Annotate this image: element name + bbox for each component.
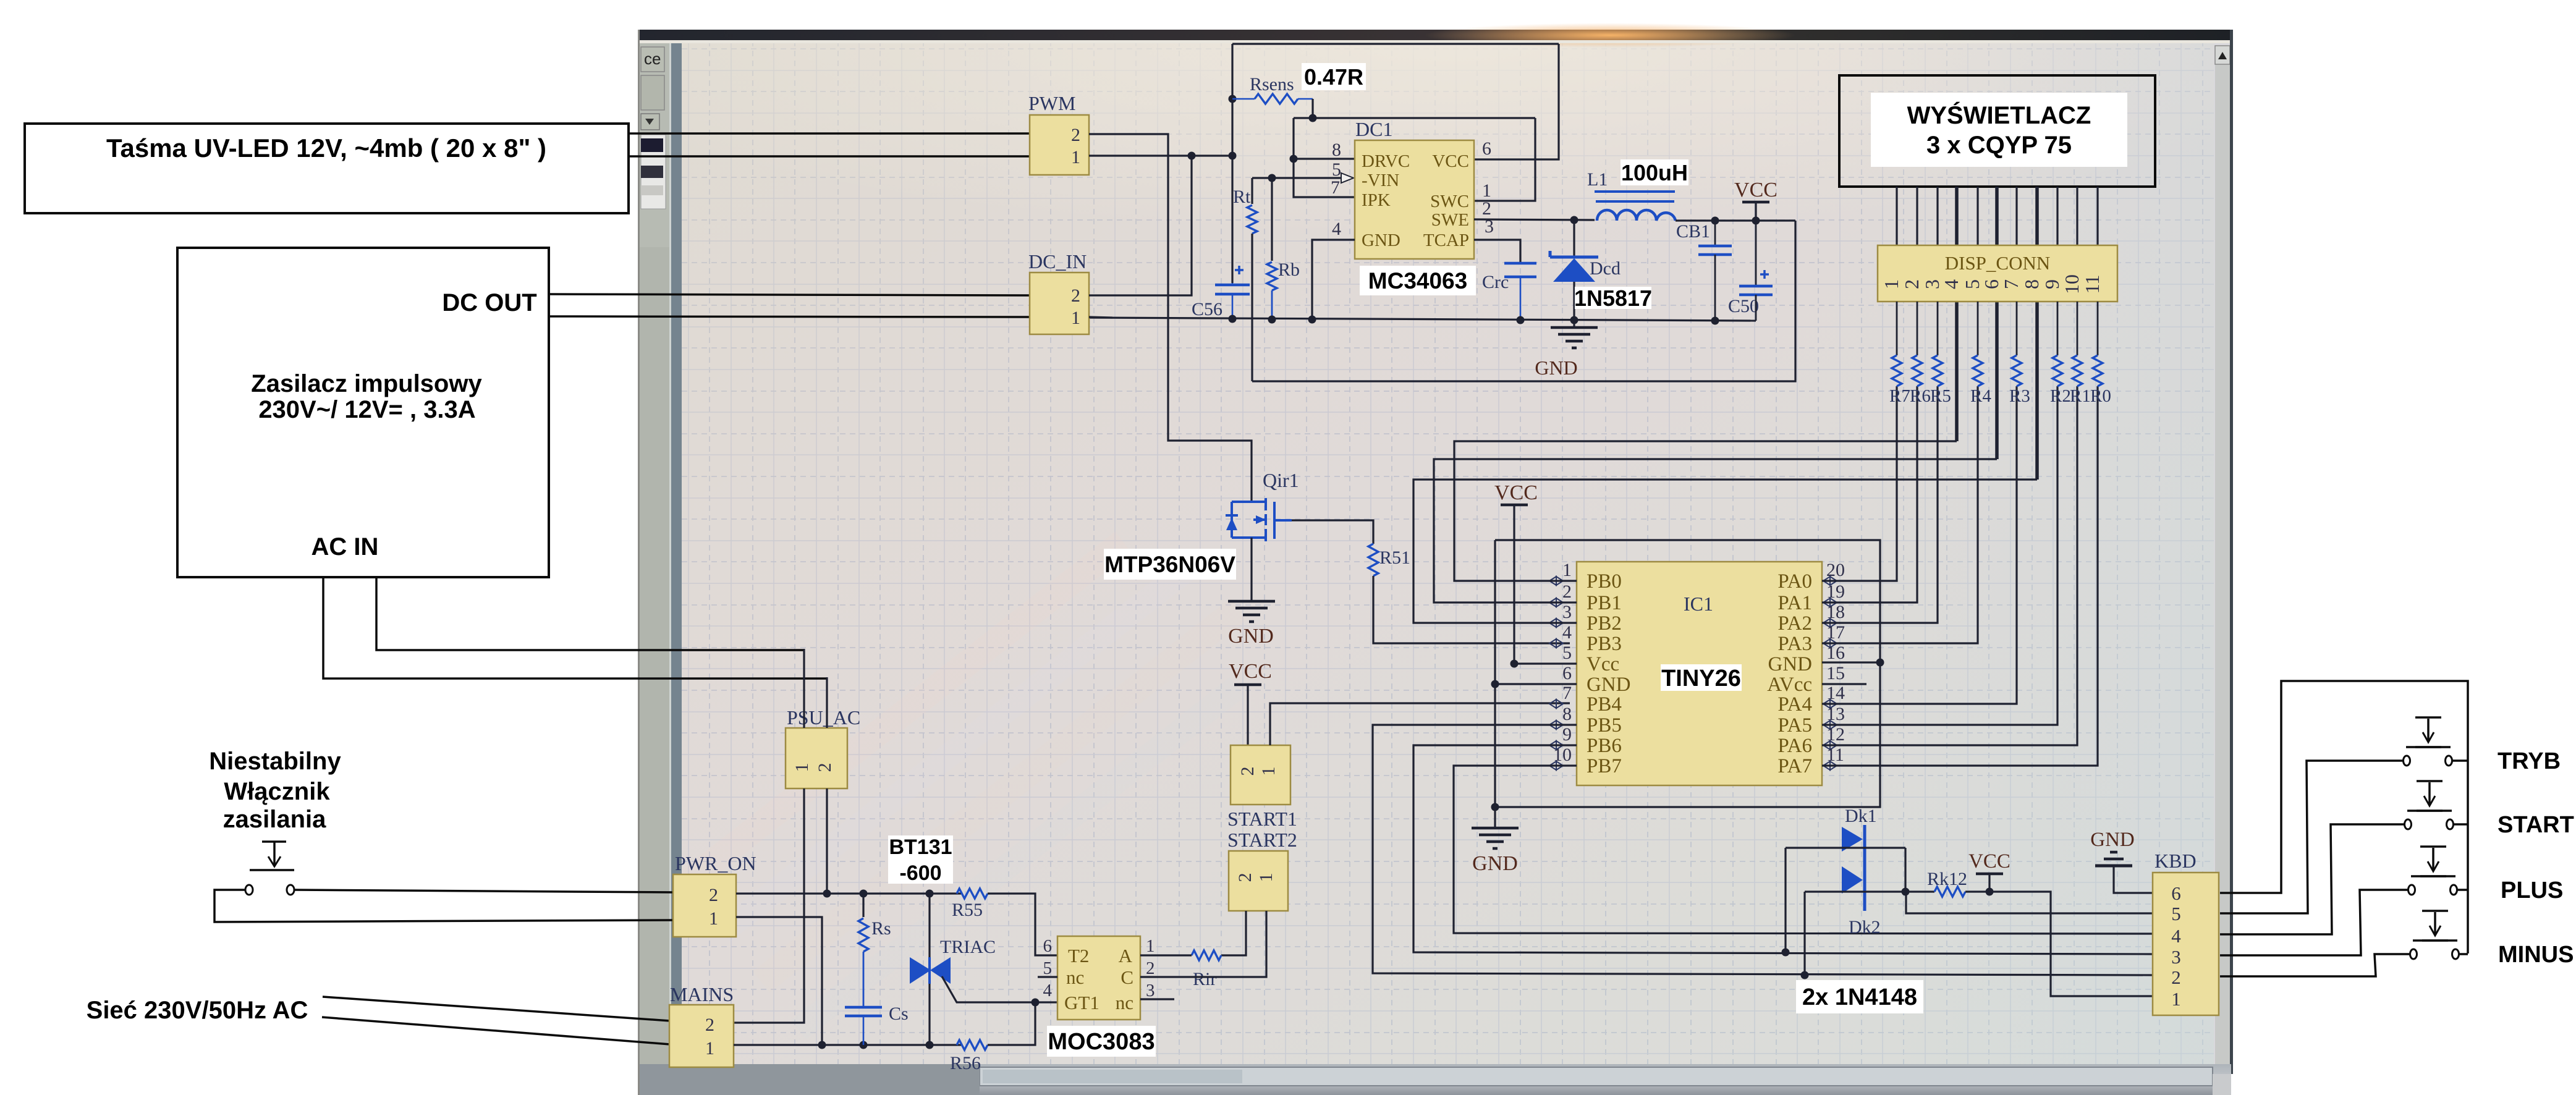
label MC34063 [1360, 266, 1476, 295]
label 1N5817 [1575, 287, 1651, 309]
wire: KBD pin6 to buttons common [2220, 681, 2468, 953]
svg-text:SWC: SWC [1430, 192, 1469, 211]
node: triac bottom [926, 1041, 934, 1049]
wire: GND stem [1494, 540, 1496, 828]
svg-text:PB1: PB1 [1587, 592, 1622, 614]
svg-text:2: 2 [1071, 125, 1080, 145]
svg-text:T2: T2 [1068, 945, 1089, 966]
wire: AC IN to PSU_AC pin1 [376, 577, 804, 650]
node: Rb top tee [1268, 174, 1276, 182]
svg-text:PWR_ON: PWR_ON [675, 852, 756, 874]
wire: MOC pin2 to START2 pin1 [1140, 911, 1266, 977]
wire: DC OUT to DC_IN pin1 [549, 316, 1030, 317]
ic IC1 TINY26 [1577, 562, 1822, 785]
svg-text:Niestabilny: Niestabilny [209, 748, 341, 775]
wire: PSU_AC pin1 riser [803, 649, 805, 728]
wire: switch to PWR_ON pin1 [214, 890, 674, 922]
wire: VCC to START1 pin2 [1247, 685, 1248, 745]
svg-text:2: 2 [705, 1015, 714, 1035]
svg-text:R1: R1 [2070, 386, 2091, 406]
wire: START2 pin2 to Rir [1221, 911, 1246, 955]
annotation box: WYSWIETLACZ display [1839, 75, 2155, 187]
annotation box: Zasilacz impulsowy (PSU) [177, 248, 549, 577]
wire: +12V top loop node A to DC1 pin6 [1232, 43, 1559, 44]
node: y191 junction [1309, 114, 1317, 122]
push button TRYB [2415, 746, 2441, 748]
label BT131-600 [888, 835, 953, 884]
wire: PSU_AC pin1 down to MAINS pin2 [734, 788, 804, 1023]
svg-text:5: 5 [1562, 643, 1572, 663]
optocoupler MOC3083 [1057, 936, 1140, 1020]
svg-text:7: 7 [2000, 279, 2022, 289]
wire: PWR_ON pin2 row (triac top rail) [736, 892, 961, 894]
svg-text:R55: R55 [952, 900, 983, 920]
svg-text:Cs: Cs [889, 1004, 909, 1024]
wire: DC1 pin2 SWE row [1474, 219, 1595, 220]
svg-text:3: 3 [2171, 946, 2181, 968]
wire: TRYB to KBD pin5 [2220, 761, 2403, 913]
svg-text:DRVC: DRVC [1362, 151, 1410, 171]
svg-text:TRIAC: TRIAC [940, 937, 996, 957]
svg-text:2: 2 [1562, 581, 1572, 602]
wire: PA1 to R6 [1822, 386, 1917, 602]
svg-text:R5: R5 [1930, 386, 1951, 406]
wire: PA3 to R4 [1822, 386, 1978, 643]
wire: DRVC/IPK vertical [1294, 118, 1355, 197]
node: gnd pin [1491, 680, 1499, 688]
wire: triac gate [942, 976, 1035, 1002]
svg-text:PA7: PA7 [1777, 755, 1812, 777]
node: DC_IN pin2 tee [1188, 152, 1196, 160]
wire: PLUS common stub [2457, 889, 2468, 891]
node: PWM pin1 tee [1229, 152, 1237, 160]
wire: Rk12 to VCC and KBD pin1 [1965, 892, 2153, 996]
svg-text:MC34063: MC34063 [1368, 268, 1467, 294]
push button PLUS [2420, 875, 2446, 877]
svg-text:IPK: IPK [1362, 190, 1391, 210]
wire: Rsens right to IPK/DRVC/SWC node [1311, 99, 1313, 118]
svg-text:15: 15 [1826, 663, 1845, 683]
svg-text:nc: nc [1116, 992, 1133, 1013]
svg-text:GND: GND [1472, 852, 1518, 875]
svg-text:16: 16 [1826, 643, 1845, 663]
svg-text:1: 1 [1562, 560, 1572, 580]
svg-text:R7: R7 [1889, 386, 1910, 406]
svg-text:R0: R0 [2090, 386, 2111, 406]
svg-text:Dcd: Dcd [1590, 258, 1621, 279]
connector START1 [1231, 745, 1290, 805]
svg-text:8: 8 [2020, 279, 2043, 289]
svg-text:2: 2 [1237, 767, 1258, 776]
push button START [2417, 810, 2443, 812]
wire: KBD pin5 row [1906, 892, 2153, 913]
wire: DC1 pin5 -VIN row [1252, 177, 1346, 179]
wire: PB7 to KBD pin4 row [1454, 766, 2153, 934]
svg-text:START2: START2 [1227, 829, 1297, 851]
svg-text:PA5: PA5 [1777, 714, 1812, 737]
svg-text:3: 3 [1562, 602, 1572, 622]
svg-text:7: 7 [1562, 683, 1572, 703]
svg-text:C: C [1121, 966, 1133, 988]
svg-text:TINY26: TINY26 [1661, 666, 1741, 691]
svg-text:PB5: PB5 [1587, 714, 1622, 737]
wire: Dk cathodes to Rk12 node [1786, 847, 1905, 848]
svg-text:DC1: DC1 [1355, 118, 1392, 140]
label WYSWIETLACZ 3 x CQYP 75 [1871, 93, 2127, 167]
wire: Qir1 source to ground [1250, 538, 1252, 601]
wire: to DC1 pin1 SWC [1474, 118, 1535, 201]
wire: DC OUT to DC_IN pin2 [549, 294, 1030, 295]
wire: PSU_AC pin2 down to switch row [826, 788, 828, 894]
svg-text:2: 2 [1071, 285, 1080, 306]
monitor photo background [640, 30, 2231, 1095]
svg-text:1: 1 [1071, 308, 1080, 328]
svg-text:R2: R2 [2050, 386, 2071, 406]
svg-text:R6: R6 [1910, 386, 1931, 406]
wire: AVcc stub [1822, 683, 1866, 685]
svg-text:3 x CQYP 75: 3 x CQYP 75 [1926, 132, 2072, 159]
svg-text:9: 9 [2041, 279, 2063, 289]
svg-text:2: 2 [2171, 966, 2181, 988]
svg-text:4: 4 [1332, 219, 1341, 239]
svg-text:Sieć 230V/50Hz AC: Sieć 230V/50Hz AC [87, 997, 308, 1024]
svg-text:GND: GND [1535, 357, 1577, 379]
wire: DISP pin6 to PB1 [1995, 302, 1999, 459]
svg-text:4: 4 [1043, 981, 1053, 1000]
svg-text:IC1: IC1 [1684, 593, 1713, 615]
svg-text:100uH: 100uH [1621, 160, 1688, 185]
node: SWE diode tap [1570, 216, 1578, 224]
right scrollbar [2215, 46, 2230, 1064]
svg-text:DISP_CONN: DISP_CONN [1945, 252, 2051, 274]
svg-text:2: 2 [815, 763, 835, 772]
ground under IC1 [1472, 827, 1519, 830]
wire: DC1 pin4 GND drop [1312, 240, 1355, 319]
svg-text:KBD: KBD [2154, 850, 2197, 872]
wire: MOC pin5 stub [1038, 976, 1057, 978]
svg-text:5: 5 [2171, 903, 2181, 924]
svg-text:VCC: VCC [1229, 660, 1272, 683]
svg-text:5: 5 [1043, 958, 1053, 978]
svg-text:ce: ce [644, 49, 661, 68]
wire: DC1 pin6 VCC [1474, 44, 1559, 159]
wire: ground rail [1089, 318, 1756, 321]
node: pin4 gnd [1308, 316, 1316, 324]
svg-text:6: 6 [1562, 663, 1572, 683]
svg-text:zasilania: zasilania [223, 806, 327, 833]
svg-text:START1: START1 [1227, 808, 1297, 830]
label MTP36N06V [1104, 549, 1236, 580]
svg-text:PB7: PB7 [1587, 755, 1622, 777]
svg-text:R56: R56 [950, 1053, 981, 1073]
svg-text:PB6: PB6 [1587, 735, 1622, 757]
node: gate/moc pin4 [1032, 999, 1040, 1007]
label MOC3083 [1047, 1026, 1156, 1057]
wire: PA0 to R7 [1822, 386, 1897, 581]
svg-text:1: 1 [2171, 988, 2181, 1010]
node: Rs top [860, 890, 868, 898]
wire: switch to PWR_ON pin2 [294, 890, 674, 892]
wires: display to DISP_CONN [1896, 187, 1897, 245]
wire: DC_IN pin2 riser [1089, 156, 1192, 295]
wire: L1 out to VCC node [1676, 219, 1795, 221]
svg-text:MOC3083: MOC3083 [1048, 1029, 1155, 1055]
wire: PA4 to R3 [1822, 386, 2017, 704]
wire: PSU_AC pin2 riser [826, 677, 828, 728]
svg-text:R4: R4 [1970, 386, 1991, 406]
svg-text:MTP36N06V: MTP36N06V [1104, 552, 1235, 577]
svg-text:PA2: PA2 [1777, 612, 1812, 635]
svg-text:SWE: SWE [1431, 210, 1469, 230]
svg-text:2: 2 [1900, 279, 1923, 289]
svg-text:WYŚWIETLACZ: WYŚWIETLACZ [1907, 101, 2091, 129]
svg-text:GND: GND [1587, 674, 1631, 696]
wire: START1 pin1 to PB4 [1270, 703, 1570, 745]
svg-text:PLUS: PLUS [2501, 877, 2563, 903]
wire: gnd top loop [1495, 540, 1880, 807]
node: psu/switch junction [823, 890, 831, 898]
svg-text:4: 4 [1562, 622, 1572, 643]
resistors R7..R0 [1896, 302, 1898, 355]
svg-text:Zasilacz impulsowy: Zasilacz impulsowy [251, 370, 482, 397]
svg-text:GND: GND [2090, 829, 2135, 851]
svg-text:4: 4 [1940, 279, 1962, 289]
svg-text:-600: -600 [899, 861, 941, 885]
svg-text:C56: C56 [1192, 299, 1222, 319]
wire: GND pin row [1495, 683, 1577, 685]
value 0.47R [1302, 63, 1366, 90]
wire: TRYB common stub [2452, 759, 2468, 762]
wire: tape to PWM pin2 [629, 132, 1030, 135]
node: kbd2/dk tee [1801, 971, 1809, 979]
svg-text:nc: nc [1066, 966, 1084, 988]
wire: DISP pin4 to PB0 [1955, 302, 1959, 441]
svg-text:9: 9 [1562, 724, 1572, 745]
svg-text:PA3: PA3 [1777, 633, 1812, 655]
svg-text:AC IN: AC IN [311, 533, 379, 560]
push button MINUS [2422, 939, 2448, 942]
wire: pin16 GND row [1822, 661, 1880, 663]
wire: DISP pin8 to PB2 [2035, 302, 2039, 480]
svg-text:8: 8 [1562, 704, 1572, 724]
svg-text:1: 1 [705, 1038, 714, 1059]
svg-text:1: 1 [1880, 279, 1902, 289]
label TINY26 [1661, 664, 1742, 691]
monitor top bezel [640, 30, 2231, 40]
svg-text:1: 1 [792, 763, 812, 772]
wire: VCC to Vcc pin [1514, 505, 1577, 664]
wire: +12V vertical rail x=1994 (C56 top) [1231, 44, 1233, 283]
svg-text:C50: C50 [1728, 296, 1759, 316]
wire: PA6 to R1 [1822, 386, 2077, 745]
wire: mains L to MAINS pin2 [323, 997, 670, 1021]
wire: PA7 to R0 [1822, 386, 2098, 766]
svg-text:VCC: VCC [1432, 151, 1469, 171]
svg-text:CB1: CB1 [1676, 221, 1710, 242]
node: gnd loop tee [1491, 803, 1499, 811]
svg-text:DC OUT: DC OUT [442, 289, 536, 316]
node: Cs bottom [860, 1041, 868, 1049]
svg-text:Rs: Rs [871, 918, 891, 939]
node: C56 bottom [1229, 315, 1237, 323]
power switch symbol [262, 840, 286, 843]
node: triac top [926, 890, 934, 898]
wire: PWR_ON pin1 to MAINS pin1 row [736, 917, 822, 1045]
wire: PB5 to KBD pin2 row [1373, 725, 2153, 975]
wire: MOC pin3 stub [1140, 998, 1174, 1000]
svg-text:Taśma UV-LED 12V, ~4mb ( 20 x: Taśma UV-LED 12V, ~4mb ( 20 x 8" ) [106, 133, 546, 163]
wire: MOC pin1 to Rir [1140, 954, 1192, 956]
node: pin16 gnd tee [1876, 659, 1884, 667]
svg-text:2: 2 [709, 885, 718, 905]
svg-text:START: START [2498, 812, 2574, 838]
wire: START to KBD pin4 [2220, 824, 2404, 934]
wire: DC_IN pin1 to gnd rail [1089, 317, 1112, 318]
svg-text:R3: R3 [2009, 386, 2030, 406]
svg-text:1: 1 [1071, 147, 1080, 167]
svg-text:2x 1N4148: 2x 1N4148 [1802, 984, 1917, 1010]
svg-text:PA6: PA6 [1777, 735, 1812, 757]
svg-text:MINUS: MINUS [2498, 942, 2574, 968]
svg-text:PWM: PWM [1028, 92, 1075, 114]
annotation box: Tasma UV-LED [25, 124, 629, 213]
node: VCC/C50 top [1752, 217, 1760, 225]
wire: PLUS to KBD pin3 [2220, 890, 2408, 955]
node: pin8 tee [1290, 155, 1298, 163]
svg-text:2: 2 [1146, 958, 1155, 978]
wire: VCC feedback loop to Rt [1252, 221, 1795, 381]
wire: mains N to MAINS pin1 [322, 1017, 670, 1044]
svg-text:GND: GND [1228, 625, 1274, 648]
ground under Qir1 [1228, 600, 1275, 603]
svg-text:BT131: BT131 [889, 835, 952, 859]
svg-text:PA1: PA1 [1777, 592, 1812, 614]
wire: Rk12 row [1805, 890, 1934, 892]
svg-text:-VIN: -VIN [1362, 171, 1399, 190]
grid [688, 41, 689, 1064]
svg-text:6: 6 [1482, 138, 1491, 159]
node: VCC tap [1986, 888, 1994, 896]
svg-text:PB4: PB4 [1587, 693, 1622, 716]
node: rk12 left [1902, 888, 1910, 896]
node: Vcc pin [1510, 660, 1519, 668]
svg-text:Vcc: Vcc [1587, 653, 1619, 675]
wire: PB6 to KBD pin3 row [1413, 745, 2153, 954]
wire: tape to PWM pin1 [629, 155, 1030, 158]
label 2x 1N4148 [1796, 980, 1923, 1013]
svg-text:Rb: Rb [1278, 260, 1300, 280]
node: CB1 bottom [1711, 317, 1719, 325]
svg-text:1: 1 [1258, 767, 1279, 776]
svg-text:GND: GND [1362, 230, 1400, 250]
svg-text:PB2: PB2 [1587, 612, 1622, 635]
node: Rb bottom [1268, 316, 1276, 324]
wire: R55 to MOC pin6 [988, 894, 1057, 955]
svg-text:MAINS: MAINS [670, 983, 734, 1005]
svg-text:PSU_AC: PSU_AC [787, 706, 860, 729]
svg-text:GND: GND [1768, 653, 1813, 675]
node: kbd3/dk tee [1782, 949, 1790, 957]
svg-text:PB0: PB0 [1587, 570, 1622, 593]
svg-text:1: 1 [1146, 936, 1155, 956]
svg-text:VCC: VCC [1734, 179, 1777, 201]
wire: MINUS to KBD pin2 [2220, 954, 2410, 976]
wire: AC IN to PSU_AC pin2 [323, 577, 827, 679]
wire: PA2 to R5 [1822, 386, 1938, 623]
left toolbar strip [640, 43, 682, 1095]
svg-text:3: 3 [1146, 981, 1155, 1000]
svg-text:6: 6 [1043, 936, 1053, 956]
node: switch return [818, 1041, 826, 1049]
svg-text:6: 6 [2171, 882, 2181, 904]
svg-text:7: 7 [1331, 177, 1340, 198]
svg-text:VCC: VCC [1968, 850, 2010, 873]
svg-text:Dk1: Dk1 [1845, 806, 1877, 826]
svg-text:TCAP: TCAP [1423, 230, 1469, 250]
svg-text:8: 8 [1332, 140, 1341, 160]
svg-text:Crc: Crc [1482, 272, 1509, 292]
svg-text:AVcc: AVcc [1767, 674, 1812, 696]
svg-text:DC_IN: DC_IN [1028, 250, 1087, 273]
svg-text:PA0: PA0 [1777, 570, 1812, 593]
svg-text:10: 10 [2061, 274, 2083, 294]
wire: MAINS pin1 row (triac bottom rail) [734, 1044, 961, 1046]
wire: DC1 pin3 TCAP to Crc [1474, 240, 1520, 263]
svg-text:Rsens: Rsens [1250, 74, 1294, 95]
ground under Dcd [1551, 326, 1598, 329]
wire: PWM pin1 to +12V [1089, 154, 1232, 156]
svg-text:Włącznik: Włącznik [224, 778, 330, 805]
connector DISP_CONN [1878, 245, 2117, 302]
svg-text:A: A [1119, 945, 1133, 966]
svg-text:Rt: Rt [1233, 187, 1251, 207]
connector START2 [1229, 851, 1288, 911]
svg-text:PA4: PA4 [1777, 693, 1812, 716]
wire: gate to R51 [1292, 520, 1373, 544]
node: Rsens left junction [1229, 95, 1237, 103]
svg-text:6: 6 [1980, 279, 2002, 289]
svg-text:L1: L1 [1587, 169, 1608, 190]
svg-text:0.47R: 0.47R [1304, 64, 1363, 90]
svg-text:1: 1 [709, 908, 718, 929]
node: Crc bottom [1517, 316, 1525, 324]
wire: PWM pin2 to Qir1 drain [1089, 134, 1252, 502]
svg-text:4: 4 [2171, 925, 2181, 947]
wire: PA5 to R2 [1822, 386, 2057, 725]
svg-text:Rir: Rir [1193, 969, 1216, 989]
wire: START common stub [2454, 823, 2468, 826]
svg-text:TRYB: TRYB [2498, 748, 2561, 774]
svg-text:GT1: GT1 [1064, 992, 1099, 1013]
wire: DC1 pin8 DRVC [1294, 158, 1355, 159]
bottom scrollbar area [640, 1064, 2231, 1095]
svg-text:Qir1: Qir1 [1263, 469, 1299, 491]
label 100uH [1621, 159, 1688, 185]
node: CB1 top [1711, 217, 1719, 225]
node: diode gnd rail [1570, 316, 1578, 324]
wire: gnd to KBD pin6 [2114, 866, 2153, 893]
svg-text:R51: R51 [1379, 547, 1410, 568]
wire: MINUS common stub [2459, 953, 2468, 955]
svg-text:230V~/ 12V= , 3.3A: 230V~/ 12V= , 3.3A [258, 396, 475, 423]
wire: R51 to PB3 [1373, 576, 1570, 643]
svg-text:VCC: VCC [1494, 481, 1538, 504]
svg-text:1N5817: 1N5817 [1574, 285, 1652, 311]
svg-text:2: 2 [1235, 873, 1255, 882]
wire: R56 to MOC pin4 [988, 1002, 1057, 1045]
svg-text:Dk2: Dk2 [1849, 917, 1881, 937]
svg-text:PB3: PB3 [1587, 633, 1622, 655]
